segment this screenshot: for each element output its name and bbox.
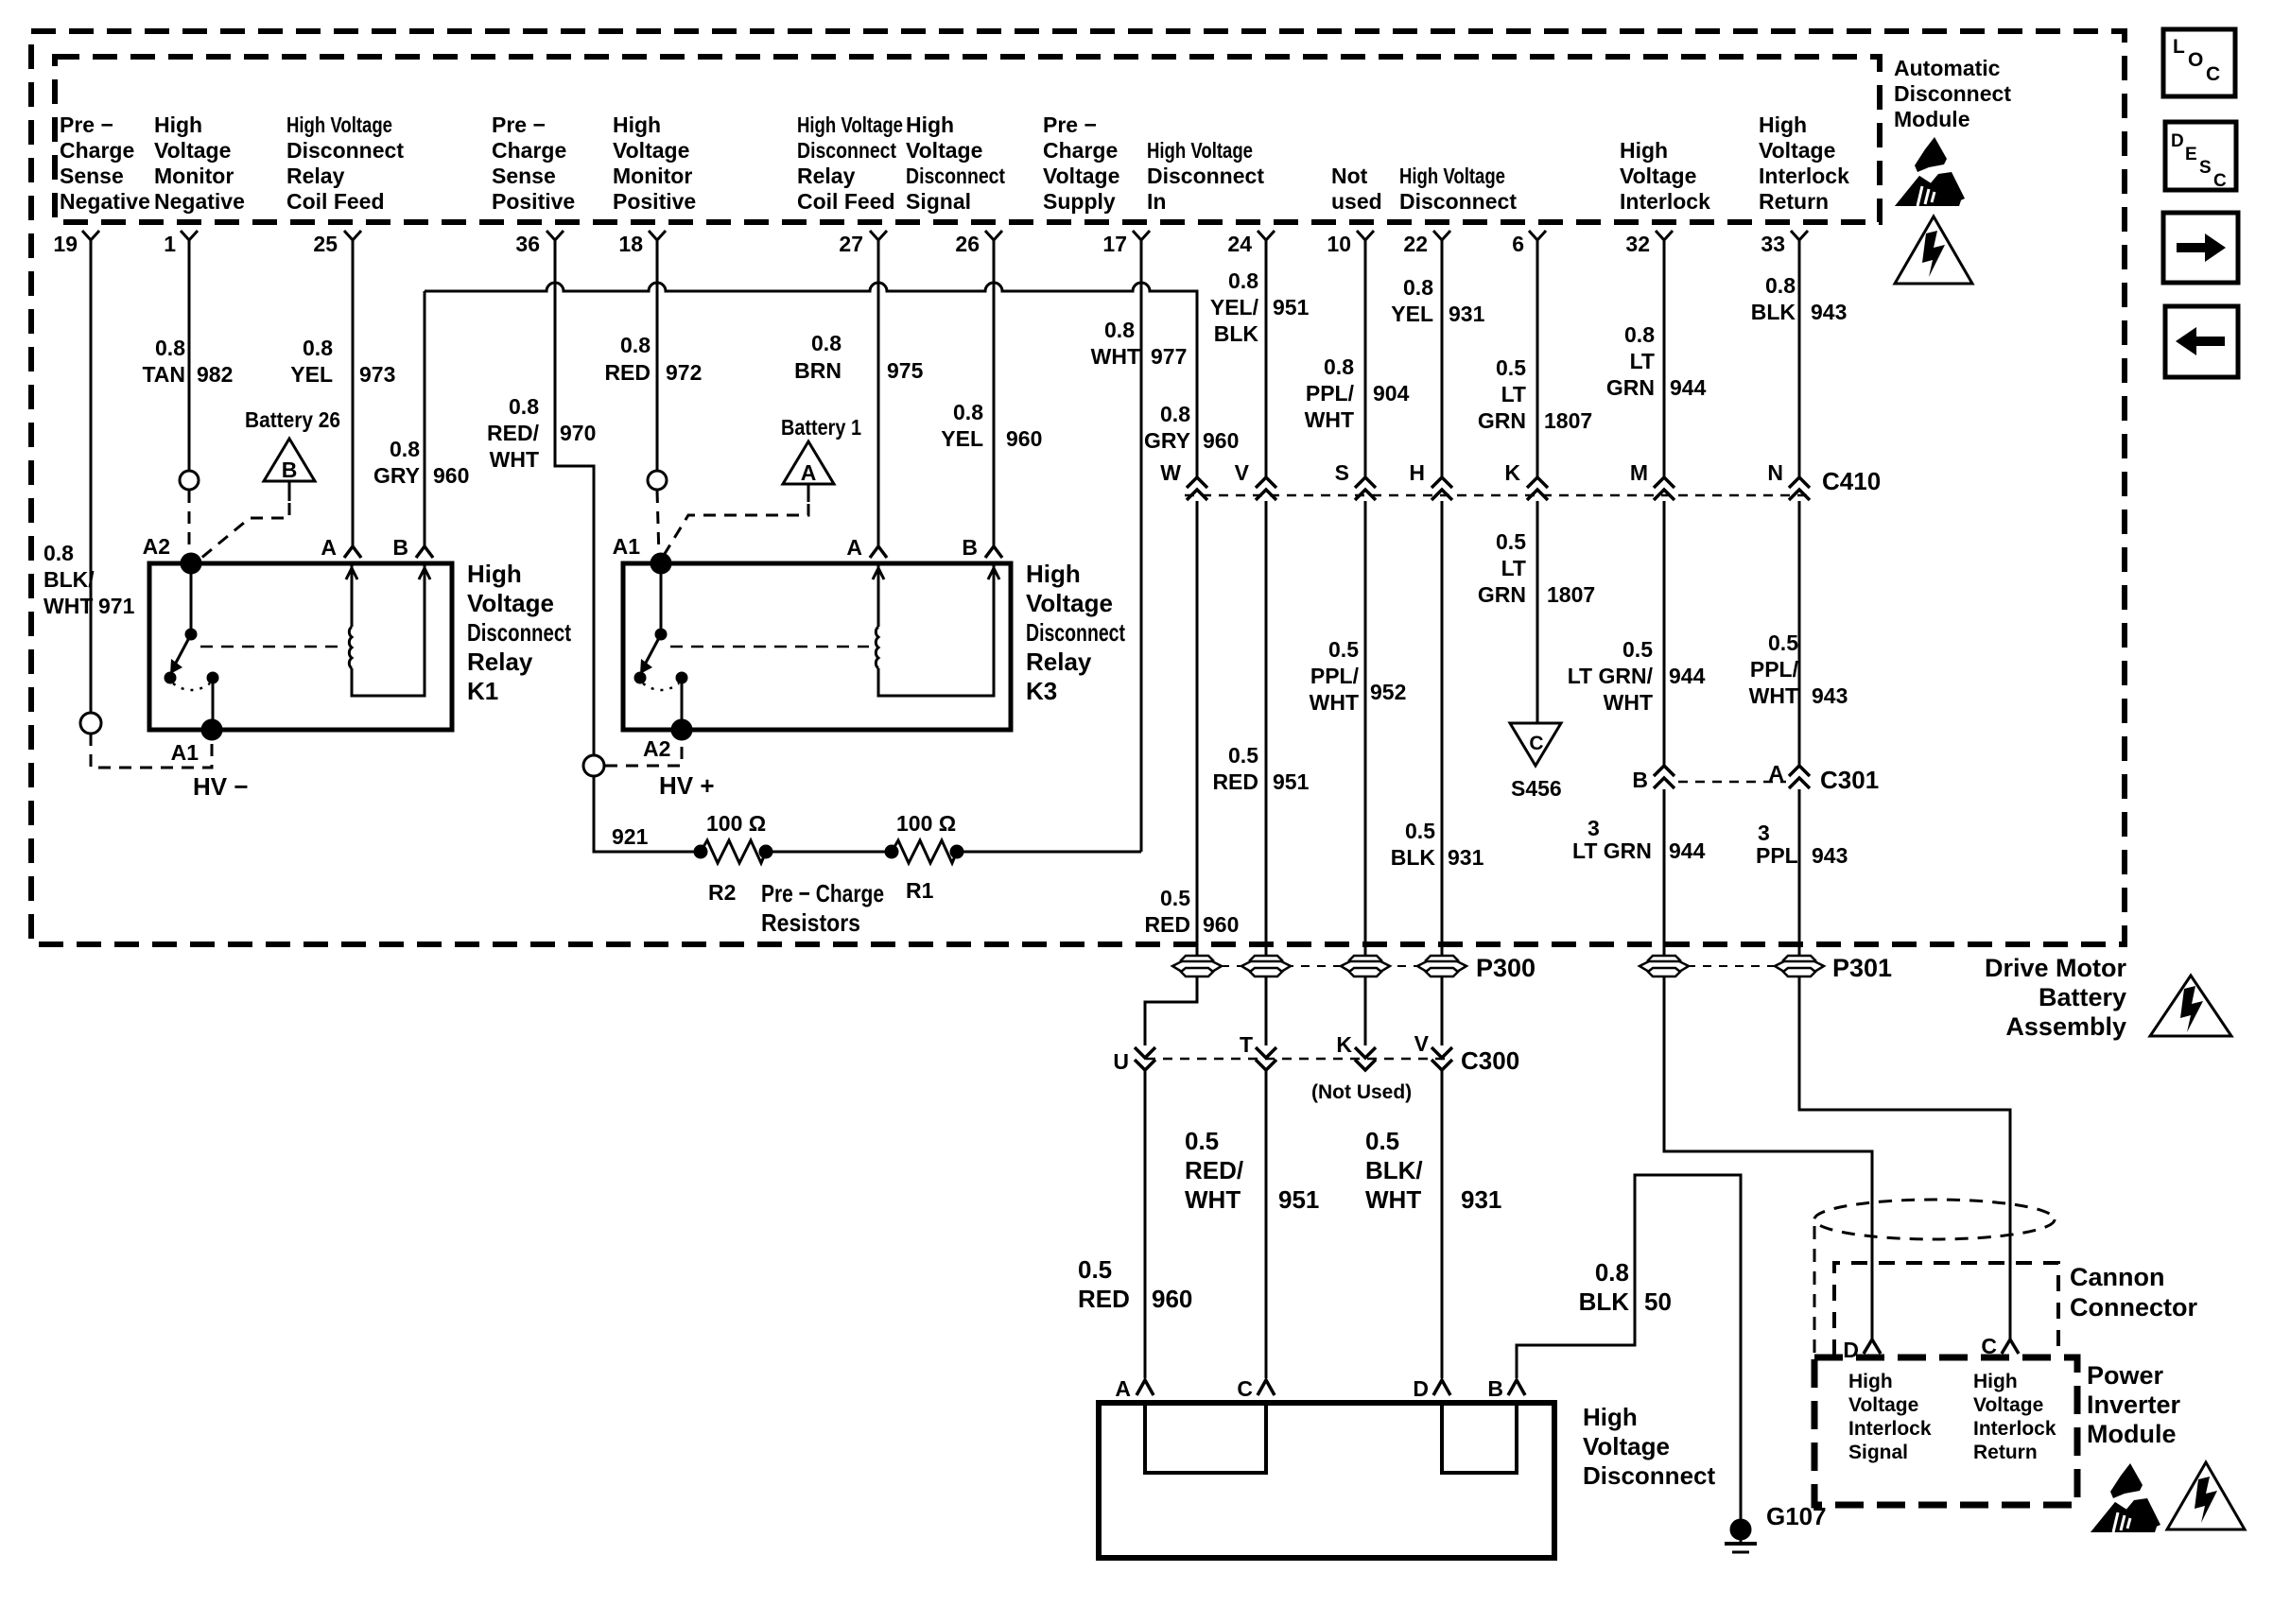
svg-text:0.8: 0.8 <box>1595 1258 1629 1287</box>
wire 24 (0.8 YEL/BLK 951) <box>1265 255 1268 477</box>
svg-text:960: 960 <box>1006 426 1042 451</box>
svg-text:A1: A1 <box>171 740 200 765</box>
svg-text:D: D <box>2171 131 2184 151</box>
svg-text:Disconnect: Disconnect <box>1894 81 2011 106</box>
svg-text:High Voltage: High Voltage <box>1399 164 1505 188</box>
pin 17 terminal <box>1102 231 1150 256</box>
header label pin 32: High Voltage Interlock <box>1620 138 1710 214</box>
svg-text:Assembly: Assembly <box>2005 1012 2126 1041</box>
svg-text:Interlock: Interlock <box>1973 1418 2056 1440</box>
svg-text:BLK: BLK <box>1214 321 1259 346</box>
pin 22 terminal <box>1403 231 1450 256</box>
svg-text:Charge: Charge <box>1043 138 1118 163</box>
header label pin 1: High Voltage Monitor Negative <box>154 112 245 214</box>
sidebar forward arrow box <box>2163 213 2238 283</box>
grommet P300 at wire 951 <box>1241 956 1291 976</box>
connector C300 pin T chevron <box>1240 1032 1276 1070</box>
splice ring on wire 18 <box>648 471 667 490</box>
svg-text:RED: RED <box>1078 1285 1130 1313</box>
svg-text:Power: Power <box>2087 1361 2164 1390</box>
ESD icon finger lines at Power Inverter Module <box>2113 1512 2130 1532</box>
outer dashed box: Drive Motor Battery Assembly boundary <box>31 31 2125 944</box>
connector C410 pin N chevron <box>1767 460 1810 500</box>
label 0.5 LT GRN 1807 below C410 <box>1478 529 1595 607</box>
svg-text:C410: C410 <box>1822 467 1881 495</box>
dashed link battery 1 to relay K3 pin A1 <box>663 504 808 557</box>
relay K1 junction dot A1 <box>202 720 221 739</box>
label: Automatic Disconnect Module <box>1894 56 2011 131</box>
svg-text:GRY: GRY <box>373 463 420 488</box>
svg-text:L: L <box>2173 36 2185 58</box>
relay K1 switch arm <box>165 563 217 730</box>
label wire 1: 0.8 TAN 982 <box>142 336 233 387</box>
pin 25 terminal <box>313 231 361 256</box>
label Power Inverter Module <box>2087 1361 2181 1448</box>
relay K3 mechanical dashed link <box>670 646 869 648</box>
svg-text:0.8: 0.8 <box>1160 402 1190 426</box>
svg-text:M: M <box>1630 460 1648 485</box>
svg-text:0.8: 0.8 <box>155 336 185 360</box>
label High Voltage Interlock Return <box>1973 1371 2056 1463</box>
svg-text:Disconnect: Disconnect <box>797 138 896 163</box>
svg-text:Interlock: Interlock <box>1620 189 1710 214</box>
svg-text:6: 6 <box>1512 232 1524 256</box>
svg-text:100 Ω: 100 Ω <box>706 811 766 836</box>
label wire 32: 0.8 LT GRN 944 <box>1606 322 1707 400</box>
svg-text:1807: 1807 <box>1547 582 1595 607</box>
svg-text:A2: A2 <box>143 534 170 559</box>
connector C300 pin K chevron (not used) <box>1336 1032 1376 1070</box>
header label pin 18: High Voltage Monitor Positive <box>613 112 696 214</box>
svg-text:C: C <box>1237 1376 1253 1401</box>
svg-text:0.8: 0.8 <box>43 541 74 565</box>
wire 19 (0.8 BLK/WHT 971) <box>90 255 93 713</box>
grommet P301 at wire 944 <box>1640 956 1689 976</box>
wire 1 (0.8 TAN 982) <box>188 255 191 470</box>
label wire 26: 0.8 YEL 960 <box>941 400 1042 451</box>
wire 26 (0.8 YEL 960) <box>993 255 996 546</box>
header label pin 10: Not used <box>1331 164 1382 214</box>
connector C300 dashed line <box>1146 1058 1451 1061</box>
header label pin 26: High Voltage Disconnect Signal <box>906 112 1005 214</box>
svg-text:951: 951 <box>1273 769 1310 794</box>
svg-text:Relay: Relay <box>467 648 533 676</box>
svg-text:0.5: 0.5 <box>1496 529 1526 554</box>
svg-text:0.5: 0.5 <box>1622 637 1653 662</box>
svg-text:931: 931 <box>1449 302 1485 326</box>
svg-text:Disconnect: Disconnect <box>1583 1461 1715 1490</box>
svg-text:Voltage: Voltage <box>154 138 231 163</box>
svg-text:WHT: WHT <box>1310 690 1359 715</box>
svg-text:0.5: 0.5 <box>1185 1127 1219 1155</box>
svg-text:H: H <box>1409 460 1425 485</box>
svg-text:Disconnect: Disconnect <box>906 164 1005 188</box>
pre-charge resistor R1 100 ohm <box>886 840 963 863</box>
svg-text:Battery 26: Battery 26 <box>245 407 340 432</box>
svg-text:Interlock: Interlock <box>1848 1418 1932 1440</box>
label 0.5 PPL/WHT 952 <box>1310 637 1407 715</box>
splice ring HV- on wire 19 <box>80 713 101 734</box>
wire C301-A to P301 (3 PPL 943) <box>1798 789 1801 956</box>
connector C410 pin K chevron <box>1504 460 1548 500</box>
wire 32 (0.8 LT GRN 944) <box>1663 255 1666 477</box>
svg-text:0.8: 0.8 <box>1228 268 1258 293</box>
relay K3 junction dot A2 <box>672 720 691 739</box>
svg-text:B: B <box>1632 768 1648 792</box>
cannon connector dashed box <box>1834 1263 2058 1356</box>
svg-text:Coil Feed: Coil Feed <box>286 189 385 214</box>
svg-text:Signal: Signal <box>1848 1442 1908 1463</box>
connector C410 pin M chevron <box>1630 460 1674 500</box>
grommet P300 at wire 960 <box>1172 956 1222 976</box>
svg-text:Disconnect: Disconnect <box>1147 164 1264 188</box>
svg-text:(Not Used): (Not Used) <box>1311 1081 1412 1103</box>
svg-text:33: 33 <box>1761 232 1785 256</box>
label wire 18: 0.8 RED 972 <box>604 333 702 385</box>
wire C410-W to P300 (0.5 RED 960) <box>1196 501 1199 956</box>
svg-text:WHT: WHT <box>1749 683 1798 708</box>
svg-text:BLK: BLK <box>1579 1287 1630 1316</box>
svg-text:PPL/: PPL/ <box>1310 664 1360 688</box>
svg-text:Connector: Connector <box>2070 1293 2197 1322</box>
svg-text:U: U <box>1113 1049 1129 1074</box>
svg-text:26: 26 <box>955 232 980 256</box>
svg-text:O: O <box>2188 49 2203 71</box>
svg-text:18: 18 <box>618 232 643 256</box>
disconnect shorting bar A-C <box>1145 1403 1266 1473</box>
svg-text:Voltage: Voltage <box>1973 1394 2043 1416</box>
svg-text:3: 3 <box>1758 821 1770 845</box>
svg-text:GRN: GRN <box>1478 408 1526 433</box>
relay K1 box: High Voltage Disconnect Relay K1 <box>149 563 452 730</box>
wire C300-U to disconnect pin A (0.5 RED 960) <box>1144 1071 1147 1378</box>
svg-text:WHT: WHT <box>1091 344 1140 369</box>
pin 36 terminal <box>515 231 564 256</box>
label High Voltage Interlock Signal <box>1848 1371 1932 1463</box>
svg-text:944: 944 <box>1669 664 1706 688</box>
svg-text:S: S <box>1335 460 1349 485</box>
svg-text:50: 50 <box>1644 1287 1672 1316</box>
disconnect pin A chevron <box>1115 1376 1154 1401</box>
svg-text:WHT: WHT <box>490 447 539 472</box>
svg-text:LT GRN: LT GRN <box>1572 838 1652 863</box>
svg-text:Monitor: Monitor <box>613 164 692 188</box>
label wire 24: 0.8 YEL/BLK 951 <box>1210 268 1310 346</box>
dashed link HV- ring to relay K1 pin A1 <box>91 734 212 768</box>
svg-text:A: A <box>801 460 817 485</box>
svg-text:WHT: WHT <box>1185 1185 1241 1214</box>
wire C300-T to disconnect pin C (0.5 RED/WHT 951) <box>1265 1071 1268 1378</box>
svg-text:Signal: Signal <box>906 189 971 214</box>
wire P301-M to cannon pin D (LT GRN 944) <box>1664 976 1872 1339</box>
connector C300 pin V chevron <box>1414 1031 1452 1070</box>
svg-text:Pre − Charge: Pre − Charge <box>761 879 884 907</box>
svg-text:0.5: 0.5 <box>1078 1255 1112 1284</box>
svg-text:0.5: 0.5 <box>1228 743 1258 768</box>
grommet P300 at wire 952 <box>1341 956 1390 976</box>
svg-text:Disconnect: Disconnect <box>1026 618 1125 647</box>
svg-text:17: 17 <box>1102 232 1127 256</box>
label wire 19: 0.8 BLK/WHT 971 <box>43 541 135 618</box>
high voltage warning triangle at Power Inverter Module <box>2167 1462 2245 1529</box>
label wire 10: 0.8 PPL/WHT 904 <box>1305 354 1410 432</box>
wire P300 to C300-T <box>1265 976 1268 1045</box>
label 0.5 LT GRN/WHT 944 <box>1568 637 1706 715</box>
svg-text:High Voltage: High Voltage <box>797 112 903 137</box>
svg-text:960: 960 <box>1203 912 1239 937</box>
connector C410 pin S chevron <box>1335 460 1376 500</box>
wire 22 (0.8 YEL 931) <box>1441 255 1444 477</box>
svg-text:RED/: RED/ <box>1185 1156 1243 1184</box>
svg-text:982: 982 <box>197 362 233 387</box>
svg-text:YEL: YEL <box>290 362 333 387</box>
svg-text:BRN: BRN <box>794 358 842 383</box>
svg-text:B: B <box>1487 1376 1503 1401</box>
svg-text:Disconnect: Disconnect <box>1399 189 1517 214</box>
svg-text:0.8: 0.8 <box>1403 275 1433 300</box>
svg-text:T: T <box>1240 1032 1253 1057</box>
svg-text:970: 970 <box>560 421 596 445</box>
label High Voltage Disconnect <box>1583 1403 1715 1490</box>
svg-text:R1: R1 <box>906 878 934 903</box>
svg-text:BLK: BLK <box>1391 845 1436 870</box>
connector C410 pin H chevron <box>1409 460 1452 500</box>
pin 1 terminal <box>164 231 198 256</box>
header label pin 24: High Voltage Disconnect In <box>1147 138 1264 214</box>
connector C301 pin B chevron <box>1632 766 1674 792</box>
pass-through grommet P300 dashed link <box>1172 965 1465 967</box>
svg-text:Not: Not <box>1331 164 1368 188</box>
label wire 36: 0.8 RED/WHT 970 <box>487 394 596 472</box>
svg-text:0.8: 0.8 <box>303 336 333 360</box>
svg-text:25: 25 <box>313 232 338 256</box>
cannon pin C chevron <box>1981 1334 2019 1358</box>
relay K1 junction dot A2 <box>182 554 200 573</box>
svg-text:High: High <box>467 560 522 588</box>
wire R1 to pin 17 riser <box>957 851 1141 854</box>
wire C410-K to splice S456 (0.5 LT GRN 1807) <box>1536 501 1539 723</box>
svg-text:Pre −: Pre − <box>1043 112 1097 137</box>
label 0.5 BLK 931 <box>1391 819 1484 870</box>
svg-text:High: High <box>1620 138 1668 163</box>
svg-text:0.8: 0.8 <box>811 331 842 355</box>
pass-through grommet P301 dashed link <box>1639 965 1825 967</box>
svg-text:PPL/: PPL/ <box>1750 657 1799 682</box>
svg-text:Coil Feed: Coil Feed <box>797 189 895 214</box>
wire 33 (0.8 BLK 943) <box>1798 255 1801 477</box>
label 0.5 PPL/WHT 943 <box>1749 631 1848 708</box>
connector C410 pin V chevron <box>1235 460 1276 500</box>
svg-text:High: High <box>906 112 954 137</box>
svg-text:Automatic: Automatic <box>1894 56 2001 80</box>
svg-text:100 Ω: 100 Ω <box>896 811 956 836</box>
ESD warning icon at Power Inverter Module <box>2091 1463 2160 1532</box>
svg-text:0.8: 0.8 <box>1765 273 1796 298</box>
label 3 LT GRN 944 <box>1572 816 1706 863</box>
svg-text:S: S <box>2199 158 2212 178</box>
svg-text:0.5: 0.5 <box>1768 631 1798 655</box>
svg-text:Voltage: Voltage <box>1620 164 1696 188</box>
svg-text:Cannon: Cannon <box>2070 1263 2165 1291</box>
dashed link wire 1 ring to relay K1 pin A2 <box>188 491 191 558</box>
label wire K1-B: 0.8 GRY 960 <box>373 437 469 488</box>
svg-text:High Voltage: High Voltage <box>1147 138 1253 163</box>
svg-text:TAN: TAN <box>142 362 185 387</box>
svg-text:YEL: YEL <box>941 426 983 451</box>
svg-text:Charge: Charge <box>492 138 566 163</box>
label 0.5 BLK/WHT 931 <box>1365 1127 1501 1214</box>
svg-text:YEL: YEL <box>1391 302 1433 326</box>
svg-text:E: E <box>2185 145 2197 164</box>
svg-text:RED: RED <box>1144 912 1190 937</box>
wire K1 pin B feed (0.8 GRY 960) <box>424 291 426 546</box>
svg-text:C300: C300 <box>1461 1046 1519 1075</box>
dashed link wire 18 ring to relay K3 pin A1 <box>657 491 659 558</box>
svg-text:Voltage: Voltage <box>1026 589 1113 617</box>
svg-text:Disconnect: Disconnect <box>286 138 404 163</box>
svg-text:RED: RED <box>1212 769 1258 794</box>
svg-text:V: V <box>1414 1031 1430 1056</box>
svg-text:K: K <box>1504 460 1520 485</box>
svg-text:973: 973 <box>359 362 395 387</box>
header label pin 19: Pre-Charge Sense Negative <box>60 112 150 214</box>
svg-text:977: 977 <box>1151 344 1187 369</box>
splice ring on wire 1 <box>180 471 199 490</box>
svg-text:P301: P301 <box>1832 954 1892 982</box>
svg-text:Relay: Relay <box>1026 648 1092 676</box>
relay K3 box: High Voltage Disconnect Relay K3 <box>623 563 1011 730</box>
header label pin 17: Pre-Charge Voltage Supply <box>1043 112 1119 214</box>
svg-text:A1: A1 <box>613 534 641 559</box>
connector C410 pin W chevron <box>1160 460 1207 500</box>
svg-text:P300: P300 <box>1476 954 1536 982</box>
wire 27 (0.8 BRN 975) <box>877 255 880 546</box>
svg-text:LT: LT <box>1501 382 1526 406</box>
relay K3 switch arm <box>635 563 686 730</box>
ESD icon finger lines <box>1917 186 1935 206</box>
svg-text:0.8: 0.8 <box>953 400 983 424</box>
ESD warning icon at Automatic Disconnect Module <box>1895 137 1965 206</box>
svg-text:Positive: Positive <box>492 189 575 214</box>
wire disconnect pin B to G107 (0.8 BLK 50) <box>1517 1175 1741 1520</box>
svg-text:19: 19 <box>53 232 78 256</box>
svg-text:10: 10 <box>1327 232 1351 256</box>
svg-text:0.5: 0.5 <box>1328 637 1359 662</box>
svg-text:Pre −: Pre − <box>60 112 113 137</box>
pin 33 terminal <box>1761 231 1808 256</box>
svg-text:Sense: Sense <box>492 164 556 188</box>
svg-text:A: A <box>1768 761 1784 786</box>
svg-text:WHT: WHT <box>1365 1185 1421 1214</box>
connector C301 pin A chevron <box>1768 761 1810 788</box>
pin 18 terminal <box>618 231 666 256</box>
svg-text:BLK/: BLK/ <box>43 567 95 592</box>
svg-text:Voltage: Voltage <box>1043 164 1119 188</box>
label 3 PPL 943 <box>1756 821 1848 868</box>
svg-text:Sense: Sense <box>60 164 124 188</box>
label 0.5 RED 960 <box>1078 1255 1192 1313</box>
svg-text:High: High <box>1026 560 1081 588</box>
battery 1 symbol A <box>783 441 834 502</box>
wire P301-N to cannon pin C (PPL 943) <box>1799 976 2010 1339</box>
dashed link HV+ ring to relay K3 pin A2 <box>605 740 682 766</box>
svg-text:Module: Module <box>2087 1420 2177 1448</box>
svg-text:Disconnect: Disconnect <box>467 618 571 647</box>
svg-text:Voltage: Voltage <box>1848 1394 1918 1416</box>
disconnect pin D chevron <box>1413 1376 1450 1401</box>
svg-text:PPL: PPL <box>1756 843 1798 868</box>
wire C301-B to P301 (3 LT GRN 944) <box>1663 789 1666 956</box>
svg-text:Relay: Relay <box>286 164 345 188</box>
svg-text:Voltage: Voltage <box>906 138 982 163</box>
relay K1 pin A chevron <box>344 546 361 558</box>
wire 10 (0.8 PPL/WHT 904) <box>1364 255 1367 477</box>
disconnect shorting bar D-B <box>1442 1403 1517 1473</box>
pin 26 terminal <box>955 231 1002 256</box>
disconnect pin C chevron <box>1237 1376 1275 1401</box>
svg-text:Charge: Charge <box>60 138 134 163</box>
power inverter module dashed box <box>1814 1357 2077 1505</box>
svg-text:C: C <box>1529 733 1543 754</box>
label wire 33: 0.8 BLK 943 <box>1751 273 1848 324</box>
svg-text:HV +: HV + <box>659 771 715 800</box>
svg-text:3: 3 <box>1588 816 1600 840</box>
svg-text:High: High <box>613 112 661 137</box>
bus wire GRY 960 from K1-B to C410-W with hops <box>425 283 1197 477</box>
svg-text:A: A <box>321 535 337 560</box>
pin 32 terminal <box>1625 231 1673 256</box>
sidebar DESC box <box>2165 122 2236 191</box>
svg-text:High: High <box>1973 1371 2018 1392</box>
pin 24 terminal <box>1227 231 1275 256</box>
svg-text:931: 931 <box>1448 845 1484 870</box>
svg-text:960: 960 <box>433 463 469 488</box>
svg-text:Negative: Negative <box>60 189 150 214</box>
svg-text:Pre −: Pre − <box>492 112 546 137</box>
svg-text:High: High <box>1759 112 1807 137</box>
svg-text:Voltage: Voltage <box>1759 138 1835 163</box>
svg-text:GRN: GRN <box>1478 582 1526 607</box>
svg-text:972: 972 <box>666 360 702 385</box>
header label pin 36: Pre-Charge Sense Positive <box>492 112 575 214</box>
label 0.5 RED 960 above P300 <box>1144 886 1239 937</box>
svg-text:WHT: WHT <box>1604 690 1653 715</box>
svg-text:0.8: 0.8 <box>1104 318 1135 342</box>
svg-text:Voltage: Voltage <box>1583 1432 1670 1460</box>
svg-text:YEL/: YEL/ <box>1210 295 1259 320</box>
label wire 6: 0.5 LT GRN 1807 <box>1478 355 1592 433</box>
pre-charge resistor R2 100 ohm <box>695 840 772 863</box>
svg-text:975: 975 <box>887 358 924 383</box>
wire C410-M to C301-B (0.5 LT GRN/WHT 944) <box>1663 501 1666 766</box>
svg-text:0.8: 0.8 <box>1624 322 1655 347</box>
svg-text:27: 27 <box>839 232 863 256</box>
inner dashed box: Automatic Disconnect Module boundary <box>55 57 1880 222</box>
header label pin 25: High Voltage Disconnect Relay Coil Feed <box>286 112 404 214</box>
label 0.5 RED/WHT 951 <box>1185 1127 1319 1214</box>
svg-text:1: 1 <box>164 232 176 256</box>
svg-text:C301: C301 <box>1820 766 1879 794</box>
svg-text:A2: A2 <box>643 736 670 761</box>
svg-text:GRY: GRY <box>1144 428 1190 453</box>
svg-text:Voltage: Voltage <box>467 589 554 617</box>
svg-text:High: High <box>1583 1403 1638 1431</box>
svg-text:A: A <box>846 535 862 560</box>
svg-text:0.8: 0.8 <box>509 394 539 419</box>
svg-text:BLK: BLK <box>1751 300 1796 324</box>
wire C410-S to P300 (0.5 PPL/WHT 952) <box>1364 501 1367 956</box>
relay K3 switch travel dotted arc <box>643 683 679 690</box>
